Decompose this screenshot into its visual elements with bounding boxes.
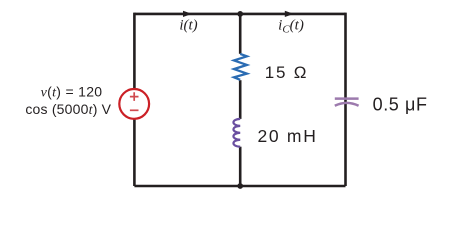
- current arrow iC(t): [285, 11, 294, 17]
- left wire: [133, 13, 136, 186]
- voltage source plus sign: [130, 92, 139, 101]
- top wire: [134, 13, 345, 16]
- svg-text:v(t) = 120: v(t) = 120: [41, 83, 103, 100]
- svg-text:15 Ω: 15 Ω: [265, 63, 309, 82]
- node junction top: [237, 11, 243, 17]
- inductor L (20 mH) coil: [233, 119, 240, 147]
- svg-text:0.5 μF: 0.5 μF: [373, 95, 428, 115]
- resistor R (15 ohm) zigzag: [234, 54, 247, 80]
- middle wire top segment: [239, 14, 242, 54]
- capacitor C (0.5 uF) flat plate: [335, 97, 359, 100]
- voltage source minus sign: [130, 109, 139, 111]
- svg-text:iC(t): iC(t): [278, 18, 304, 36]
- node junction bottom: [237, 183, 243, 189]
- svg-text:i(t): i(t): [179, 18, 197, 34]
- current arrow i(t): [183, 11, 192, 17]
- bottom wire: [134, 185, 345, 188]
- svg-text:cos (5000t) V: cos (5000t) V: [25, 101, 111, 118]
- voltage source V1 circle: [119, 89, 149, 119]
- middle wire bottom segment: [239, 147, 242, 186]
- svg-text:20 mH: 20 mH: [258, 126, 318, 146]
- right wire: [344, 13, 347, 186]
- middle wire between resistor and inductor: [239, 80, 242, 119]
- capacitor C curved plate: [335, 103, 359, 106]
